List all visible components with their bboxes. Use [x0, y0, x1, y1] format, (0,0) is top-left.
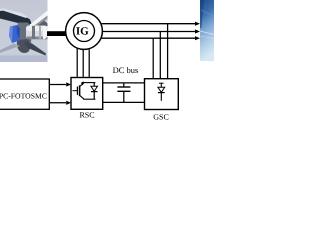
svg-text:DC bus: DC bus: [113, 65, 139, 75]
svg-text:IG: IG: [76, 25, 89, 37]
svg-text:RSC: RSC: [79, 111, 94, 120]
svg-text:GSC: GSC: [153, 113, 169, 120]
svg-text:PC-FOTOSMC: PC-FOTOSMC: [0, 92, 47, 101]
